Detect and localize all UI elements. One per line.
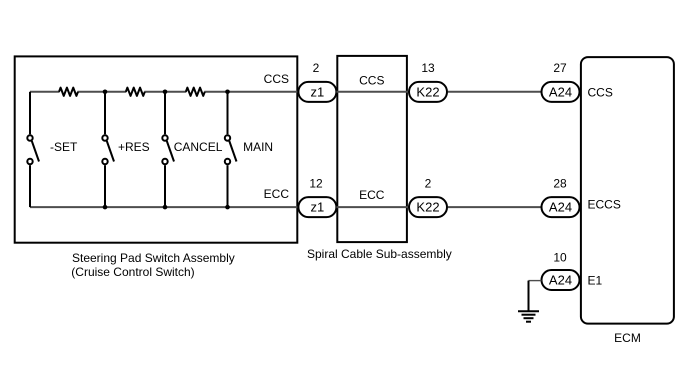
svg-text:CCS: CCS bbox=[588, 85, 613, 99]
junction dot bottom 3 bbox=[225, 205, 230, 210]
svg-text:z1: z1 bbox=[311, 85, 325, 100]
svg-text:(Cruise Control Switch): (Cruise Control Switch) bbox=[71, 265, 194, 279]
connector K22 pin 13 bbox=[409, 82, 447, 102]
svg-text:28: 28 bbox=[553, 177, 567, 191]
svg-text:ECCS: ECCS bbox=[588, 198, 621, 212]
junction dot top 2 bbox=[163, 90, 168, 95]
svg-text:ECC: ECC bbox=[264, 187, 290, 201]
svg-text:A24: A24 bbox=[549, 200, 572, 215]
middle box: Spiral Cable Sub-assembly bbox=[337, 56, 407, 242]
connector z1 pin 12 bbox=[298, 197, 336, 217]
switch CANCEL bbox=[162, 92, 174, 207]
svg-text:A24: A24 bbox=[549, 85, 572, 100]
switch -SET bbox=[27, 92, 39, 207]
ground symbol bbox=[518, 311, 539, 322]
left box: Steering Pad Switch Assembly bbox=[15, 56, 298, 242]
connector z1 pin 2 bbox=[298, 82, 336, 102]
wire: E1 to ground bbox=[529, 281, 542, 312]
connector A24 pin 27 bbox=[542, 82, 580, 102]
svg-text:CCS: CCS bbox=[264, 72, 289, 86]
svg-text:+RES: +RES bbox=[118, 140, 150, 154]
connector A24 pin 10 bbox=[542, 270, 580, 290]
svg-text:Steering Pad Switch Assembly: Steering Pad Switch Assembly bbox=[72, 251, 235, 265]
wire: K22 to A24 ECC bbox=[448, 206, 542, 208]
svg-text:K22: K22 bbox=[416, 85, 439, 100]
svg-text:MAIN: MAIN bbox=[243, 140, 273, 154]
svg-text:ECM: ECM bbox=[614, 331, 641, 345]
wire: ECC through spiral cable box bbox=[336, 206, 409, 208]
svg-text:CANCEL: CANCEL bbox=[174, 140, 223, 154]
svg-text:10: 10 bbox=[553, 251, 567, 265]
junction dot bottom 2 bbox=[163, 205, 168, 210]
wire: CCS top bus inside left box bbox=[30, 91, 297, 93]
switch MAIN bbox=[225, 92, 237, 207]
svg-text:ECC: ECC bbox=[359, 188, 385, 202]
wire: ECC bottom bus inside left box bbox=[30, 206, 297, 208]
resistor R3 bbox=[186, 88, 205, 96]
wire: K22 to A24 CCS bbox=[448, 91, 542, 93]
svg-text:E1: E1 bbox=[588, 273, 603, 287]
junction dot top 3 bbox=[225, 90, 230, 95]
svg-text:-SET: -SET bbox=[50, 140, 78, 154]
resistor R2 bbox=[126, 88, 145, 96]
switch +RES bbox=[102, 92, 114, 207]
junction dot top 1 bbox=[103, 90, 108, 95]
ECM box bbox=[581, 57, 674, 324]
caption: Steering Pad Switch Assembly (Cruise Control Switch) bbox=[71, 251, 234, 279]
connector A24 pin 28 bbox=[542, 197, 580, 217]
svg-text:CCS: CCS bbox=[359, 73, 384, 87]
junction dot bottom 1 bbox=[103, 205, 108, 210]
wire: CCS through spiral cable box bbox=[336, 91, 409, 93]
svg-text:12: 12 bbox=[309, 177, 323, 191]
svg-text:27: 27 bbox=[553, 61, 567, 75]
svg-text:13: 13 bbox=[421, 61, 435, 75]
svg-text:2: 2 bbox=[425, 177, 432, 191]
svg-text:2: 2 bbox=[313, 61, 320, 75]
svg-text:K22: K22 bbox=[416, 200, 439, 215]
resistor R1 bbox=[59, 88, 78, 96]
svg-text:Spiral Cable Sub-assembly: Spiral Cable Sub-assembly bbox=[307, 247, 452, 261]
connector K22 pin 2 bbox=[409, 197, 447, 217]
svg-text:A24: A24 bbox=[549, 273, 572, 288]
svg-text:z1: z1 bbox=[311, 200, 325, 215]
